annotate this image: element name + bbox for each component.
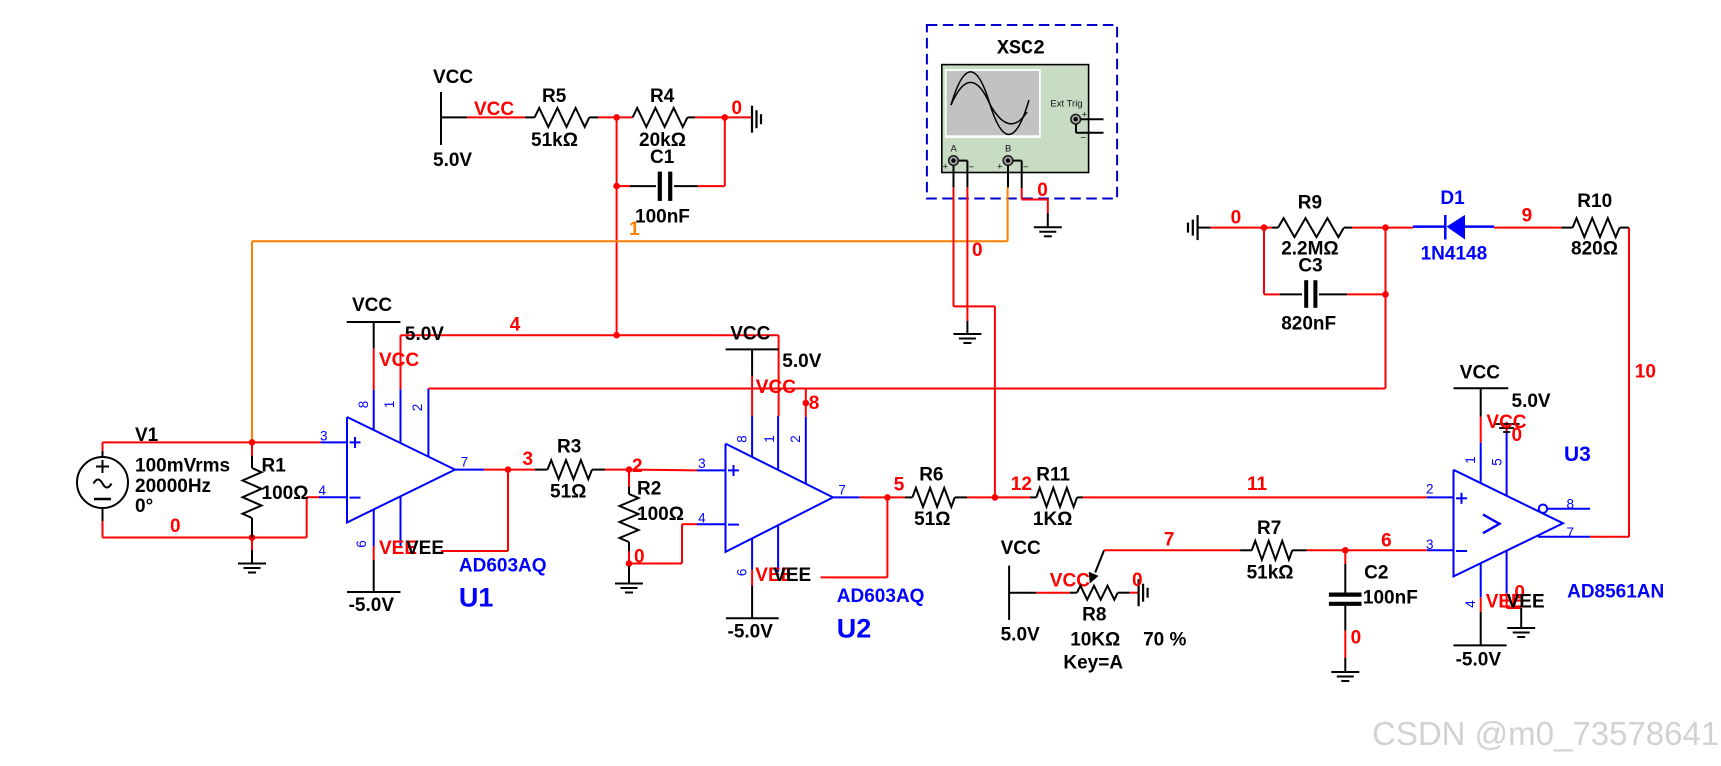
svg-text:8: 8: [1567, 497, 1575, 512]
resistor R2 100&#937;: [628, 470, 630, 487]
svg-text:AD603AQ: AD603AQ: [837, 586, 925, 607]
svg-text:2: 2: [788, 435, 803, 443]
svg-text:R2: R2: [637, 479, 661, 500]
svg-text:VCC: VCC: [1050, 571, 1090, 592]
svg-text:11: 11: [1247, 474, 1268, 495]
U3 VCC power symbol: [1454, 387, 1509, 389]
power -5.0V bar U2: [726, 617, 779, 619]
potentiometer R8 10K 70%: [1070, 592, 1077, 594]
svg-text:R9: R9: [1298, 193, 1322, 214]
svg-text:R6: R6: [919, 465, 943, 486]
svg-text:XSC2: XSC2: [997, 38, 1045, 61]
ground below C2: [1331, 671, 1359, 673]
svg-text:0: 0: [1037, 180, 1048, 201]
comparator U3 AD8561AN triangle: [1454, 470, 1564, 577]
svg-text:100nF: 100nF: [1363, 588, 1418, 609]
svg-text:9: 9: [1522, 206, 1533, 227]
svg-text:−: −: [1023, 162, 1029, 173]
resistor R3 51&#937;: [508, 469, 535, 471]
svg-text:5.0V: 5.0V: [405, 324, 444, 345]
svg-text:0°: 0°: [135, 496, 153, 517]
wire net 7 from R8 wiper to R7: [1104, 549, 1240, 551]
capacitor C3 820nF: [1263, 228, 1265, 295]
resistor R11 1K&#937;: [995, 496, 1030, 498]
source V1 100mVrms 20000Hz: [77, 457, 128, 508]
U1 pin6 lead to -5.0V: [373, 546, 375, 560]
svg-text:10: 10: [1635, 362, 1656, 383]
svg-text:0: 0: [1231, 208, 1242, 229]
op-amp U2 AD603AQ triangle: [726, 444, 834, 552]
svg-text:51Ω: 51Ω: [914, 509, 950, 530]
svg-text:-5.0V: -5.0V: [1456, 650, 1502, 671]
resistor R7 51k&#937;: [1240, 549, 1252, 551]
U3 pin 7 output stub: [1538, 536, 1590, 538]
U2 pin 7 output stub: [833, 496, 860, 498]
power VCC (rotated bar) feeding R5: [440, 92, 442, 145]
U1 pin 4 stub: [319, 496, 347, 498]
potentiometer R8 wiper arrow: [1095, 550, 1104, 572]
U1 VCC power symbol: [347, 321, 401, 323]
node junction R9 left / C3: [1261, 224, 1268, 231]
svg-text:U1: U1: [459, 583, 494, 613]
wire node1 vertical R5/R4 junction down to net 4: [616, 117, 618, 335]
svg-text:R1: R1: [262, 456, 287, 477]
svg-text:D1: D1: [1440, 188, 1465, 209]
U2 pin 5 (FDBK): [777, 526, 779, 572]
U3 pin 3 stub: [1427, 549, 1454, 551]
wire U2 feedback to pin 5: [886, 497, 888, 577]
node junction net 6: [1342, 547, 1349, 554]
svg-text:5.0V: 5.0V: [1512, 391, 1551, 412]
svg-text:C3: C3: [1298, 256, 1322, 277]
resistor R9 2.2M&#937;: [1264, 227, 1272, 229]
U2 pin 8 (VPOS): [751, 416, 753, 457]
svg-text:6: 6: [354, 540, 369, 548]
svg-text:CSDN @m0_73578641: CSDN @m0_73578641: [1372, 715, 1719, 752]
svg-text:8: 8: [809, 393, 820, 414]
svg-text:2: 2: [1426, 482, 1434, 497]
wire net 12 vertical down to R6/R11 node: [994, 306, 996, 497]
svg-text:3: 3: [1426, 537, 1434, 552]
U1 pin 8 (VPOS): [373, 390, 375, 431]
svg-text:51kΩ: 51kΩ: [1247, 563, 1294, 584]
wire net 4 horizontal (VCC gain line U1 pin1 to U2 pin1): [401, 334, 779, 336]
wire net 8 vertical from R9/D1 node down to long horizontal: [1385, 228, 1387, 389]
svg-text:100nF: 100nF: [635, 206, 690, 227]
svg-text:U3: U3: [1564, 443, 1591, 466]
svg-text:Ext Trig: Ext Trig: [1050, 98, 1082, 109]
svg-text:8: 8: [735, 435, 750, 443]
capacitor C2 100nF: [1344, 550, 1346, 564]
node junction R4 right / net 0: [722, 114, 729, 121]
instrument XSC2 waveform trace large: [951, 72, 1029, 135]
svg-text:820Ω: 820Ω: [1571, 239, 1618, 260]
wire V1 bottom: [103, 537, 307, 539]
svg-text:4: 4: [318, 483, 326, 498]
svg-text:+: +: [943, 162, 949, 173]
resistor R1 100&#937;: [251, 442, 253, 456]
node junction net 8 at U2 pin2: [803, 400, 810, 407]
wire R4 right to ground: [725, 116, 752, 118]
wire ground to R9: [1198, 227, 1211, 229]
ground below scope B-: [1034, 226, 1062, 228]
svg-text:VCC: VCC: [730, 323, 770, 344]
diode D1 1N4148: [1386, 227, 1413, 229]
svg-text:1N4148: 1N4148: [1421, 244, 1488, 265]
wire VCC to R5: [467, 116, 525, 118]
svg-text:R3: R3: [557, 437, 581, 458]
svg-text:8: 8: [356, 401, 371, 409]
svg-text:100Ω: 100Ω: [637, 504, 684, 525]
ground (right-facing) at R4 output: [751, 106, 753, 133]
svg-text:Key=A: Key=A: [1063, 653, 1123, 674]
instrument XSC2 body: [942, 65, 1089, 173]
ground below R1: [238, 563, 266, 565]
wire scope A+ lead down: [953, 165, 955, 187]
U3 comparator > symbol: [1483, 515, 1500, 534]
wire net 8 down to U2 pin 2: [805, 389, 807, 417]
svg-text:5.0V: 5.0V: [782, 351, 821, 372]
U1 pin 7 output stub: [455, 469, 484, 471]
ground below U3: [1507, 627, 1535, 629]
svg-text:C1: C1: [650, 147, 675, 168]
svg-text:-5.0V: -5.0V: [728, 622, 774, 643]
instrument XSC2 oscilloscope dashed selection box: [927, 25, 1117, 199]
U1 pin 3 stub: [321, 441, 348, 443]
node junction U2 output: [884, 494, 891, 501]
resistor R10 820&#937;: [1562, 227, 1573, 229]
svg-text:5.0V: 5.0V: [433, 150, 472, 171]
ground below scope A-: [953, 333, 981, 335]
svg-text:A: A: [951, 143, 958, 154]
svg-text:51Ω: 51Ω: [550, 482, 586, 503]
svg-text:7: 7: [461, 454, 469, 469]
svg-text:VEE: VEE: [1507, 592, 1545, 613]
power -5.0V bar U1: [347, 591, 401, 593]
node junction R9 right / D1: [1382, 224, 1389, 231]
instrument XSC2 waveform trace small: [951, 82, 1027, 123]
power VCC (rotated bar) feeding R8: [1008, 566, 1010, 620]
wire net 6 to U3 - input: [1345, 549, 1427, 551]
node junction net 2: [626, 466, 633, 473]
svg-text:1: 1: [762, 435, 777, 443]
ground (left-facing) at R9 input: [1196, 215, 1198, 240]
svg-text:VCC: VCC: [352, 295, 392, 316]
svg-text:7: 7: [1164, 529, 1175, 550]
U3 pin 2 stub: [1427, 496, 1454, 498]
wire V1 bottom up to U1 - input: [306, 497, 308, 537]
svg-text:6: 6: [1381, 531, 1392, 552]
svg-text:1: 1: [382, 401, 397, 409]
svg-text:1: 1: [629, 219, 640, 240]
U2 pin 6 (VNEG): [751, 539, 753, 570]
U3 pin 5 (latch) to ground above: [1506, 430, 1508, 496]
U1 pin 6 (VNEG): [373, 510, 375, 546]
ground (right-facing) at R8: [1137, 579, 1139, 606]
wire U1 output net 3: [484, 469, 508, 471]
svg-text:U2: U2: [837, 614, 872, 644]
svg-text:10KΩ: 10KΩ: [1070, 630, 1120, 651]
svg-text:5: 5: [894, 474, 905, 495]
wire net 4 down to U1 pin 1: [400, 335, 402, 389]
U2 pin 1 (GPOS): [777, 416, 779, 470]
node junction net 4 / C1 branch: [613, 332, 620, 339]
svg-text:B: B: [1005, 143, 1011, 154]
svg-text:-5.0V: -5.0V: [349, 595, 395, 616]
svg-text:AD603AQ: AD603AQ: [459, 556, 547, 577]
node junction R2 bottom: [626, 560, 633, 567]
svg-text:0: 0: [1351, 628, 1362, 649]
svg-text:VCC: VCC: [433, 67, 473, 88]
svg-text:7: 7: [838, 482, 846, 497]
U2 pin 3 stub: [697, 469, 726, 471]
wire V1 top to U1 + input: [103, 441, 321, 443]
svg-text:R4: R4: [650, 86, 675, 107]
wire net 1 (orange) horizontal from scope channel B+: [252, 240, 1008, 242]
svg-text:VEE: VEE: [773, 565, 811, 586]
svg-text:VCC: VCC: [1460, 363, 1500, 384]
svg-text:3: 3: [523, 449, 534, 470]
wire VCC to R8: [1036, 592, 1070, 594]
U1 pin 1 (GPOS): [400, 389, 402, 443]
wire R1 bottom to ground: [251, 538, 253, 551]
svg-text:0: 0: [1132, 570, 1143, 591]
wire scope B- lead down to ground: [1013, 160, 1022, 162]
svg-text:820nF: 820nF: [1281, 314, 1336, 335]
svg-text:0: 0: [170, 516, 181, 537]
resistor R6 51&#937;: [887, 496, 905, 498]
U2 pin 2 (GNEG): [805, 417, 807, 484]
svg-text:5.0V: 5.0V: [1001, 625, 1040, 646]
svg-text:3: 3: [320, 428, 328, 443]
node junction C1 left tap: [613, 183, 620, 190]
svg-text:100Ω: 100Ω: [262, 483, 309, 504]
U2 pin 4 stub: [697, 523, 726, 525]
U3 pin 8 stub with circle: [1539, 505, 1547, 513]
svg-text:VEE: VEE: [406, 538, 444, 559]
svg-text:4: 4: [698, 510, 706, 525]
svg-text:VCC: VCC: [1001, 538, 1041, 559]
svg-text:2: 2: [410, 404, 425, 412]
U3 pin 1 (V+): [1480, 443, 1482, 484]
node junction net 12: [992, 494, 999, 501]
svg-text:−: −: [1081, 133, 1087, 144]
wire scope B+ lead down (orange): [1007, 165, 1009, 187]
wire C1 right side up to R4 output: [724, 117, 726, 186]
svg-text:R8: R8: [1082, 604, 1106, 625]
svg-text:51kΩ: 51kΩ: [531, 130, 578, 151]
instrument XSC2 screen: [945, 69, 1041, 138]
svg-text:1: 1: [1463, 456, 1478, 464]
power -5.0V bar U3: [1454, 644, 1507, 646]
wire net 4 down to U2 pin 1: [778, 335, 780, 416]
svg-text:20000Hz: 20000Hz: [135, 476, 211, 497]
node junction bottom R1: [249, 534, 256, 541]
wire scope A+ over to net 12 vertical: [954, 305, 995, 307]
svg-text:+: +: [997, 162, 1003, 173]
U2 pin6 lead to -5.0V: [751, 570, 753, 586]
svg-text:VCC: VCC: [756, 377, 796, 398]
wire net 9 D1 to R10: [1494, 227, 1562, 229]
svg-text:R5: R5: [542, 86, 567, 107]
U1 pin 2 (GNEG): [427, 389, 429, 458]
svg-text:5: 5: [1490, 458, 1505, 466]
U3 pin 6 (GND) to ground: [1506, 550, 1508, 593]
svg-text:VCC: VCC: [379, 350, 419, 371]
svg-text:3: 3: [698, 456, 706, 471]
U1 pin 5 (FDBK): [400, 497, 402, 546]
node junction R5/R4/C1 top: [613, 114, 620, 121]
svg-text:R7: R7: [1257, 518, 1281, 539]
wire R2 bottom to U2 - input: [629, 563, 682, 565]
svg-text:6: 6: [735, 569, 750, 577]
svg-text:VCC: VCC: [1486, 412, 1526, 433]
wire U2 output net 5: [860, 496, 888, 498]
svg-text:2: 2: [632, 456, 643, 477]
svg-text:1KΩ: 1KΩ: [1033, 509, 1073, 530]
svg-text:R11: R11: [1036, 465, 1070, 486]
wire net 8 long horizontal U1 pin2 - U2 pin2 - R9/D1 node: [428, 388, 1385, 390]
resistor R4 20k&#937;: [617, 116, 633, 118]
wire net 11 to U3 + input: [1083, 496, 1427, 498]
svg-text:70 %: 70 %: [1143, 630, 1186, 651]
svg-text:−: −: [969, 162, 975, 173]
node junction V1/R1/orange: [249, 439, 256, 446]
node junction U1 output: [505, 466, 512, 473]
svg-text:0: 0: [732, 98, 743, 119]
op-amp U1 AD603AQ triangle: [347, 417, 455, 523]
node junction C3 right: [1382, 291, 1389, 298]
svg-text:4: 4: [510, 315, 521, 336]
wire net 2 to U2 + input: [629, 469, 697, 472]
U3 pin 4 (V-): [1480, 563, 1482, 597]
svg-text:4: 4: [1463, 600, 1478, 608]
wire net 1 (orange) vertical down to V1 node: [251, 241, 253, 442]
wire scope A- lead down to ground: [958, 160, 967, 162]
svg-text:7: 7: [1567, 525, 1575, 540]
wire U3 output to net 10: [1590, 536, 1629, 538]
resistor R5 51k&#937;: [525, 116, 535, 118]
wire net 10 from R10 down to U3 output: [1628, 228, 1630, 537]
wire U1 feedback to pin 5: [507, 470, 509, 551]
svg-text:100mVrms: 100mVrms: [135, 456, 230, 477]
svg-text:AD8561AN: AD8561AN: [1567, 582, 1664, 603]
svg-text:C2: C2: [1364, 563, 1388, 584]
svg-text:12: 12: [1011, 474, 1032, 495]
capacitor C1 100nF: [617, 185, 630, 187]
ground below R2: [628, 566, 630, 583]
svg-text:R10: R10: [1577, 191, 1612, 212]
U2 VCC power symbol: [726, 348, 779, 350]
svg-text:0: 0: [972, 240, 983, 261]
wire R5 to node junction: [598, 116, 617, 118]
